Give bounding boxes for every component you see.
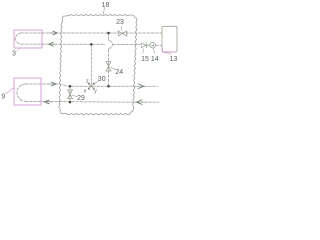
- wire line B (y=44.4) box3 to compressor 14: [21, 43, 106, 45]
- svg-text:24: 24: [115, 69, 123, 76]
- four-way valve 30: [88, 83, 95, 90]
- svg-text:z: z: [86, 79, 89, 85]
- heat exchanger box 3: [14, 30, 42, 48]
- junction node B-V2: [90, 43, 93, 46]
- check valve 15: [141, 43, 147, 54]
- U-tube coil in box 9: [17, 84, 26, 101]
- junction node D-V3: [69, 85, 72, 88]
- wire line C (y=101.5) return line to box9: [26, 100, 137, 103]
- cloud boundary 18 (unit casing outline): [59, 15, 137, 115]
- svg-text:13: 13: [170, 56, 178, 63]
- expansion valve 24: [106, 61, 116, 71]
- svg-text:18: 18: [102, 2, 110, 9]
- flow arrow entering from right (line C): [136, 100, 142, 105]
- label 18 leader: [103, 7, 104, 14]
- heat exchanger box 9: [14, 78, 41, 105]
- svg-text:x: x: [84, 89, 87, 95]
- flow arrow into cloud (line A): [52, 31, 57, 35]
- svg-text:23: 23: [116, 19, 124, 26]
- junction node D-V1: [107, 85, 110, 88]
- wire line D (y=85.7) box9 through four-way valve 30: [26, 84, 137, 86]
- flow arrow toward box 3 (line B): [49, 42, 54, 46]
- flow arrow exiting right (line D): [138, 84, 144, 89]
- svg-text:y: y: [94, 89, 97, 95]
- junction node A-V1: [107, 32, 110, 35]
- svg-text:30: 30: [98, 76, 106, 83]
- flow arrow into cloud (line D): [51, 82, 56, 86]
- label 9 leader: [6, 88, 14, 95]
- label 13 leader: [164, 53, 172, 56]
- svg-text:9: 9: [1, 94, 5, 101]
- valve 23: [118, 26, 128, 36]
- wire vertical V1 with crossover hop and expansion valve 24: [109, 33, 113, 86]
- svg-text:29: 29: [77, 95, 85, 102]
- flow arrow toward box 9 (line C): [44, 100, 49, 104]
- expansion valve 29: [67, 90, 77, 100]
- svg-text:15: 15: [141, 56, 149, 63]
- U-tube coil in box 3: [16, 33, 21, 44]
- svg-text:14: 14: [151, 56, 159, 63]
- junction node C-V3: [69, 101, 72, 104]
- label 3 leader: [16, 48, 20, 51]
- compressor 14: [150, 42, 156, 53]
- receiver tank 13: [162, 26, 177, 52]
- wire vertical V3 valve 29 branch: [69, 86, 71, 102]
- svg-text:3: 3: [12, 51, 16, 58]
- label 30 leader: [95, 81, 99, 84]
- wire vertical V2 to four-way valve: [90, 44, 92, 86]
- wire line A (y=33) box3 to component 13: [21, 32, 162, 34]
